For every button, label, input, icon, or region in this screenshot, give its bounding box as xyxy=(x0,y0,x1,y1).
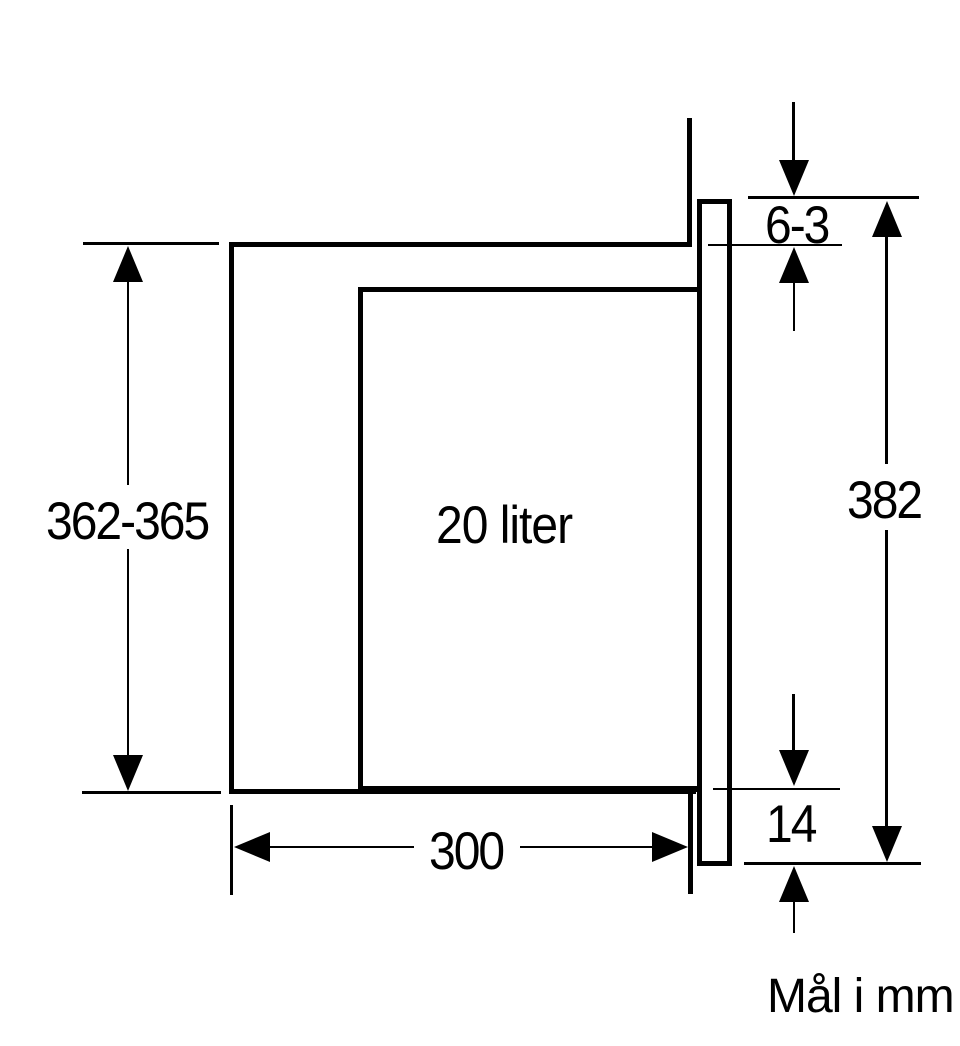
dim 300 left tick xyxy=(230,805,233,895)
dim 6-3 lower line xyxy=(708,244,842,247)
wall line above niche xyxy=(687,118,692,247)
label 20 liter xyxy=(436,500,572,553)
dim 14 down arrow stem xyxy=(792,694,795,752)
dim 6-3 up arrowhead xyxy=(779,247,809,283)
dim 14 upper line xyxy=(713,788,840,791)
niche top edge xyxy=(229,242,692,248)
label 362-365 xyxy=(46,496,208,549)
dim 300 left arrowhead xyxy=(234,832,270,862)
dim 362-365 down arrowhead xyxy=(113,755,143,791)
oven body left edge xyxy=(358,287,363,792)
dim 300 stem right xyxy=(520,846,654,849)
dim 6-3 down arrow stem xyxy=(792,102,795,162)
dim 382 down arrowhead xyxy=(872,826,902,862)
label 382 xyxy=(847,475,921,528)
niche bottom edge xyxy=(229,789,696,795)
dim 300 stem left xyxy=(267,846,414,849)
label Mål i mm xyxy=(767,973,954,1021)
dim 362-365 stem lower xyxy=(127,549,130,757)
wall line below niche xyxy=(688,792,693,894)
dim 362-365 top extension line xyxy=(83,242,219,245)
dim 6-3 upper line xyxy=(748,196,919,199)
dim 6-3 down arrowhead xyxy=(779,160,809,196)
label 14 xyxy=(766,799,815,852)
oven body bottom edge xyxy=(358,786,698,792)
dim 300 right arrowhead xyxy=(652,832,688,862)
dim 382 stem upper xyxy=(885,234,888,464)
dim 14 up arrow stem xyxy=(793,900,796,933)
oven body top edge xyxy=(358,287,698,293)
dim 382 up arrowhead xyxy=(872,201,902,237)
door front panel xyxy=(697,199,732,866)
dim 362-365 up arrowhead xyxy=(113,246,143,282)
dim 14 down arrowhead xyxy=(779,750,809,786)
niche left edge xyxy=(229,242,234,794)
dim 14 lower line xyxy=(744,862,921,865)
dim 382 stem lower xyxy=(885,530,888,828)
dim 362-365 bottom extension line xyxy=(82,791,221,794)
dim 14 up arrowhead xyxy=(779,866,809,902)
label 300 xyxy=(429,826,503,879)
dim 362-365 stem upper xyxy=(127,280,130,485)
dim 6-3 up arrow stem xyxy=(793,281,796,331)
label 6-3 xyxy=(765,200,828,253)
